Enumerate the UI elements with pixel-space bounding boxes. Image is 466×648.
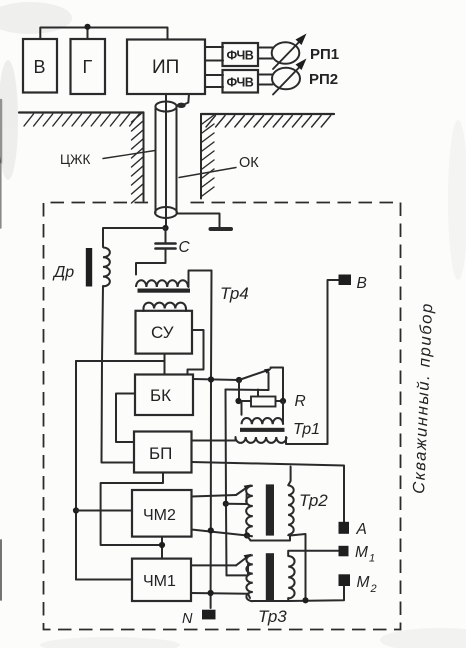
svg-text:А: А — [356, 521, 367, 538]
block Г (generator) — [71, 39, 106, 94]
earth surface hatched, right of borehole — [201, 114, 334, 127]
label Скважинный прибор (vertical) — [410, 302, 436, 495]
wire branch СУ bottom to left feed bus — [76, 360, 165, 362]
switch arm at Тр2 — [236, 484, 252, 495]
wire Др bottom down left bus to БП left side — [102, 286, 135, 463]
wire Тр3 right winding top to terminal М1 — [288, 551, 338, 556]
wire R wiper to ЧМ bus — [226, 389, 269, 392]
wire БП right to terminal А — [192, 462, 345, 522]
earth surface hatched, left of borehole — [19, 113, 144, 127]
wire ЧМ1 lower to Тр3 left winding bottom — [191, 593, 250, 598]
wire ЧМ selector bus vertical — [226, 390, 227, 576]
transformer Тр4 — [136, 280, 190, 311]
wire БК left feedback loop to БП left — [116, 394, 135, 443]
junction dot at switch pivot — [236, 377, 242, 383]
electrode N (black square) — [202, 610, 216, 620]
switch fixed contact at Тр3 (from ЧМ bus) — [227, 564, 249, 575]
svg-text:Г: Г — [83, 57, 93, 77]
svg-text:Тр2: Тр2 — [299, 491, 328, 510]
wire Г to top bus — [87, 28, 89, 40]
wire pivot down to R left terminal — [238, 380, 240, 401]
junction dot below cable — [162, 225, 168, 231]
svg-text:ОК: ОК — [239, 155, 259, 171]
svg-text:Др: Др — [52, 264, 74, 281]
wire switch to R right terminal — [271, 368, 284, 402]
borehole right wall hatched — [201, 114, 214, 199]
junction dot R right — [280, 398, 286, 404]
wire БП bottom to ЧМ junction — [101, 473, 163, 545]
svg-text:М: М — [355, 544, 368, 561]
wire ЧМ2 bottom to ЧМ1 top — [161, 537, 163, 559]
label ОК with leader — [179, 155, 259, 178]
svg-text:Тр1: Тр1 — [293, 421, 320, 438]
capacitor C — [156, 228, 176, 249]
junction dot common bus ЧМ1 wire — [208, 590, 214, 596]
svg-text:РП1: РП1 — [310, 46, 339, 63]
svg-text:БК: БК — [150, 386, 171, 405]
wire Тр1 secondary right to terminal В — [286, 280, 339, 444]
block ИП — [127, 40, 205, 95]
wire left bus to ЧМ2 — [76, 510, 132, 512]
cable ОК armour tube — [155, 102, 177, 219]
transformer Тр2 — [246, 484, 294, 536]
block ЧМ1 — [132, 559, 191, 601]
meter РП2 (recorder) — [272, 59, 338, 95]
svg-text:ФЧВ: ФЧВ — [227, 49, 254, 63]
terminal М1 (square) — [339, 546, 349, 557]
junction dot Тр2 left winding bottom — [244, 532, 250, 538]
junction dot common bus ЧМ2 wire — [208, 527, 214, 533]
wire junction to choke Др — [103, 228, 166, 247]
svg-text:2: 2 — [370, 583, 377, 595]
svg-text:Тр4: Тр4 — [220, 284, 249, 303]
junction dot between ЧМ2 and ЧМ1 — [159, 542, 165, 548]
block В (rectifier) — [23, 39, 57, 93]
block СУ — [136, 311, 193, 354]
terminal М2 (square) — [339, 574, 351, 586]
meter РП1 (recorder) — [272, 34, 339, 70]
ground (earth bar) — [211, 227, 232, 231]
wire top bus connecting В, Г, ИП — [40, 28, 167, 40]
borehole left wall hatched — [132, 112, 144, 203]
block ФЧВ2 (phase-sensitive rectifier 2) — [223, 70, 259, 93]
wire pair ИП to ФЧВ2 — [205, 74, 223, 76]
transformer Тр1 — [236, 401, 287, 443]
terminal В (square) — [339, 275, 352, 286]
junction dot ЧМ bus Тр2 contact — [223, 501, 229, 507]
junction dot on top bus above Г — [84, 24, 90, 30]
junction dot М2 line — [302, 597, 308, 603]
wire Тр4 primary right end to common bus — [189, 271, 212, 288]
switch fixed contact at Тр2 — [226, 494, 247, 504]
block БП — [134, 432, 192, 473]
block ЧМ2 — [132, 490, 192, 537]
switch fixed contact stem — [268, 373, 270, 391]
wire pair ФЧВ2 to РП2 meter — [258, 74, 273, 76]
choke Др — [86, 248, 110, 287]
svg-text:R: R — [295, 393, 306, 410]
svg-text:ФЧВ: ФЧВ — [227, 76, 254, 90]
wire СУ right to БК top — [188, 330, 204, 375]
svg-text:Тр3: Тр3 — [258, 607, 287, 626]
wire capacitor to Тр4 primary — [136, 249, 166, 275]
block ФЧВ1 (phase-sensitive rectifier 1) — [223, 43, 259, 66]
svg-text:ЧМ1: ЧМ1 — [143, 573, 176, 590]
label ЦЖК with leader — [60, 151, 155, 168]
wire ЧМ1 to Тр3 switch arm — [191, 564, 236, 566]
junction dot on common bus at БК output — [208, 376, 214, 382]
svg-text:СУ: СУ — [151, 323, 174, 342]
svg-text:Скважинный. прибор: Скважинный. прибор — [410, 302, 436, 495]
resistor R — [239, 397, 283, 407]
wire left feed bus vertical — [75, 361, 77, 580]
switch arm (contact) near R — [239, 368, 272, 380]
switch arm at Тр3 — [236, 554, 252, 566]
wire cable armour to ИП bottom (with solder blob) — [177, 94, 189, 108]
wire ЧМ2 to Тр2 switch arm — [192, 495, 237, 497]
transformer Тр3 — [246, 553, 294, 601]
junction dot R left — [235, 398, 241, 404]
block БК — [135, 375, 193, 416]
svg-text:ЦЖК: ЦЖК — [60, 152, 90, 167]
wire Тр1 secondary left to БП right — [192, 437, 236, 441]
svg-text:ИП: ИП — [152, 57, 179, 78]
svg-text:В: В — [34, 57, 46, 77]
svg-text:ЧМ2: ЧМ2 — [143, 507, 176, 524]
svg-text:М: М — [357, 574, 370, 591]
wire СУ bottom to БК top and branch to left bus — [164, 354, 166, 375]
wire БК output to switch — [193, 379, 239, 380]
wire ЧМ2 lower to Тр2 winding bottom — [192, 530, 248, 536]
svg-text:С: С — [179, 239, 191, 256]
wire Тр3 winding bottoms connector to М2 — [253, 598, 288, 601]
wire pair ИП to ФЧВ1 — [205, 46, 223, 48]
label М1 — [355, 544, 375, 565]
wire left bus to ЧМ1 — [76, 579, 132, 581]
svg-text:N: N — [182, 611, 193, 627]
terminal А (square) — [339, 522, 350, 534]
svg-text:РП2: РП2 — [309, 71, 338, 88]
wire cable bottom to ground symbol — [178, 214, 220, 228]
wire pair ФЧВ1 to РП1 meter — [258, 47, 273, 49]
wire common bus vertical (Тр4 to N electrode) — [210, 271, 213, 609]
wire Тр2 right winding top to А wire — [288, 467, 290, 486]
svg-text:1: 1 — [369, 553, 375, 565]
label М2 — [357, 574, 377, 595]
junction dot left bus to ЧМ2 — [73, 507, 79, 513]
svg-text:В: В — [357, 275, 367, 292]
wire Тр2 winding bottoms connector down to М2 line — [247, 535, 290, 540]
enclosure dashed box (borehole instrument) — [44, 203, 401, 630]
svg-text:БП: БП — [149, 444, 172, 463]
wire ЦЖК central core from ИП down through cable — [165, 94, 167, 228]
